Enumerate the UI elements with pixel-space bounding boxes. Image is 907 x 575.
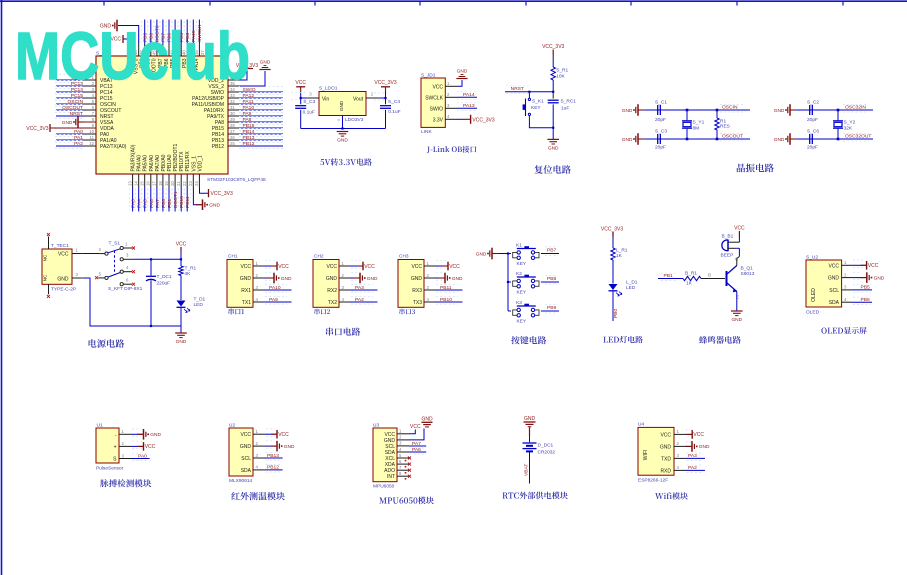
wire net PB10 [180, 188, 182, 212]
svg-text:LED: LED [194, 302, 204, 308]
svg-text:20pF: 20pF [655, 145, 666, 151]
wire to key [508, 310, 511, 312]
svg-text:GND: GND [548, 146, 559, 152]
svg-text:GND: GND [774, 108, 785, 114]
wire R1 to node [552, 80, 554, 92]
capacitor S_C3 20pF [657, 134, 659, 144]
svg-text:PA7: PA7 [412, 441, 421, 447]
svg-text:GND: GND [774, 137, 785, 143]
svg-text:MPU6050: MPU6050 [373, 484, 395, 490]
pin 48 VDD_3 (top) [132, 44, 134, 56]
resistor S_R1 10K [551, 67, 555, 80]
wire net PB6 [852, 301, 872, 303]
wire VCC to Vin [300, 93, 302, 99]
wire pin1 to VCC [265, 433, 277, 435]
caption serial 2 [314, 309, 330, 315]
pin 17 PA7/A0 (bottom) [156, 174, 158, 188]
svg-text:GND: GND [281, 276, 292, 282]
svg-text:GND: GND [326, 276, 338, 282]
svg-text:GND: GND [176, 339, 187, 345]
svg-text:GND: GND [524, 416, 536, 422]
wire net PA3 [686, 457, 705, 459]
svg-text:U3: U3 [373, 423, 379, 429]
pin 46 PB9 (top) [144, 44, 146, 56]
svg-text:D_DC1: D_DC1 [538, 443, 554, 449]
svg-text:0.1uF: 0.1uF [303, 110, 315, 116]
wire net PA0 [131, 458, 150, 460]
svg-text:PA2: PA2 [688, 465, 697, 471]
svg-text:CH2: CH2 [314, 254, 324, 260]
caption serial circuit [326, 327, 360, 335]
wire LED to rail [180, 307, 182, 326]
svg-text:LED: LED [626, 285, 636, 291]
pin 47 VSS_3 (top) [138, 44, 140, 56]
svg-text:VCC: VCC [660, 432, 671, 438]
wire net PB15 [240, 127, 283, 129]
caption buzzer circuit [699, 336, 741, 344]
svg-text:PulseSensor: PulseSensor [96, 466, 124, 472]
wire LDO GND to rail [342, 116, 344, 129]
svg-text:PB0: PB0 [613, 308, 619, 318]
svg-text:PA13: PA13 [463, 103, 475, 109]
svg-text:RXD: RXD [660, 468, 671, 474]
junction [552, 91, 554, 93]
svg-text:VCC_3V3: VCC_3V3 [26, 126, 48, 132]
svg-text:10K: 10K [556, 74, 565, 80]
svg-text:VCC: VCC [410, 424, 421, 430]
svg-text:KEY: KEY [517, 261, 527, 267]
svg-text:OSC32IN: OSC32IN [845, 105, 866, 111]
svg-text:VCC: VCC [240, 264, 251, 270]
svg-text:T_S1: T_S1 [109, 241, 121, 247]
wire net NRST [56, 115, 84, 117]
svg-text:VCC: VCC [145, 444, 156, 450]
svg-text:28: 28 [230, 123, 235, 128]
svg-text:GND: GND [240, 276, 252, 282]
svg-text:T_DC1: T_DC1 [157, 274, 173, 280]
svg-text:PB12: PB12 [267, 465, 279, 471]
svg-text:VCC: VCC [734, 226, 745, 232]
svg-text:TX2: TX2 [328, 300, 337, 306]
capacitor S_C3 0.1uF [300, 98, 302, 104]
connector CH1 serial [227, 260, 253, 308]
svg-text:S_K1: S_K1 [532, 99, 544, 105]
svg-text:S_C6: S_C6 [807, 129, 819, 135]
caption LED circuit [603, 336, 642, 343]
wire net PB11 [435, 289, 463, 291]
svg-text:GND: GND [622, 137, 633, 143]
wire GND to VSS_3 [118, 26, 139, 45]
wire pin2 to GND [409, 429, 424, 440]
svg-text:VCC: VCC [411, 264, 422, 270]
wire PB1 to R [658, 278, 683, 280]
junction [384, 97, 386, 99]
svg-text:+: + [114, 444, 117, 450]
wire pin1 to VCC [686, 433, 692, 435]
sheet zone tick [419, 1, 421, 6]
no connect pin 5 [408, 457, 411, 460]
wire VCC to R1 [552, 55, 554, 67]
caption reset circuit [534, 165, 570, 174]
junction [552, 127, 554, 129]
svg-text:15: 15 [140, 181, 145, 186]
svg-text:17: 17 [152, 181, 157, 186]
svg-text:ESP8266-12F: ESP8266-12F [638, 478, 668, 484]
wire key to net PB7 [541, 253, 559, 255]
wire net PB14 [240, 133, 283, 135]
ground [137, 433, 144, 435]
wire pin2 to GND [852, 277, 867, 279]
wire VCC down [180, 251, 182, 266]
svg-text:16: 16 [146, 181, 151, 186]
sheet border top [0, 0, 907, 2]
svg-text:SCL: SCL [829, 288, 839, 294]
svg-text:PA8: PA8 [243, 117, 252, 123]
svg-text:XDA: XDA [385, 462, 396, 468]
svg-text:PA6/A0: PA6/A0 [149, 155, 155, 172]
ground [731, 310, 743, 312]
wire net PB10 [435, 301, 463, 303]
wire net SWIO [240, 91, 283, 93]
junction [150, 325, 152, 327]
ground [439, 277, 446, 279]
battery D_DC1 CR2032 [523, 442, 537, 444]
sensor U1 PulseSensor [96, 428, 119, 463]
wire gnd to keys rail [497, 253, 508, 255]
svg-text:B_B1: B_B1 [722, 234, 734, 240]
svg-text:PB12: PB12 [243, 141, 255, 147]
svg-text:SCL: SCL [241, 456, 251, 462]
wire pin1 to VCC [435, 265, 448, 267]
svg-text:8M: 8M [693, 126, 700, 132]
pin 1 stub [123, 247, 132, 249]
wire net PA3 [132, 188, 134, 212]
svg-text:VCC_3V3: VCC_3V3 [601, 227, 623, 233]
pin 5 stub [98, 277, 105, 279]
svg-text:PA2/TX(A0): PA2/TX(A0) [100, 144, 127, 150]
svg-text:220uF: 220uF [157, 281, 171, 287]
wire OSC32OUT row [795, 138, 873, 140]
pin 4 stub [123, 271, 132, 273]
wire net PA14 [458, 96, 477, 98]
svg-text:25: 25 [230, 141, 235, 146]
wire VCC to R [612, 237, 614, 249]
svg-text:VCC_3V3: VCC_3V3 [211, 191, 233, 197]
svg-text:11: 11 [90, 135, 95, 140]
ground [271, 445, 278, 447]
pin 22 PB11/RX (bottom) [186, 174, 188, 188]
svg-text:KEY: KEY [517, 290, 527, 296]
svg-text:PA9: PA9 [243, 111, 252, 117]
svg-text:PB15: PB15 [243, 123, 255, 129]
connector T_TEC1 TYPE-C-2P [42, 249, 72, 284]
svg-text:VCC: VCC [326, 264, 337, 270]
wire net PB5 [174, 20, 176, 45]
svg-text:PB8: PB8 [547, 276, 557, 282]
wire net PB12 [265, 469, 283, 471]
svg-text:31: 31 [230, 105, 235, 110]
svg-text:K3: K3 [516, 300, 522, 306]
switch link dashed [114, 251, 116, 275]
svg-text:GND: GND [240, 444, 252, 450]
display S_U2 OLED [806, 260, 842, 307]
svg-text:S_LDO1: S_LDO1 [319, 86, 338, 92]
svg-text:MCUclub: MCUclub [15, 19, 250, 94]
switch S_K1 KEY [528, 92, 530, 98]
svg-text:BEEP: BEEP [721, 253, 734, 259]
wire key to gnd wire [528, 116, 530, 122]
wire net BOOT1 [174, 188, 176, 212]
svg-text:S_JD1: S_JD1 [421, 73, 436, 79]
svg-text:LDO3V3: LDO3V3 [345, 117, 364, 123]
svg-text:GND: GND [452, 276, 463, 282]
wire VCC to buzzer pin1 [738, 237, 740, 242]
wire OSC32IN row [795, 109, 873, 111]
svg-text:GND: GND [284, 444, 295, 450]
transistor B_Q1 S9013 [726, 271, 728, 286]
svg-text:XCL: XCL [385, 456, 395, 462]
svg-text:S_Y2: S_Y2 [844, 120, 856, 126]
wire net PA2 [56, 145, 84, 147]
wire net PA13 [458, 107, 477, 109]
svg-text:T_R1: T_R1 [185, 266, 197, 272]
pin 21 PB10/TX (bottom) [180, 174, 182, 188]
wire net PB13 [240, 139, 283, 141]
junction [300, 97, 302, 99]
svg-text:CH3: CH3 [399, 254, 409, 260]
wire net PA7 [409, 445, 426, 447]
svg-text:RES: RES [720, 124, 730, 130]
wire pin1 to VCC [264, 265, 277, 267]
power VCC [138, 445, 144, 447]
wire net BOOT0 [156, 20, 158, 45]
wire net PB7 [162, 20, 164, 45]
LED L_D1 [609, 284, 618, 290]
pin 3 GND [72, 277, 83, 279]
pin 13 PA3/RX(A0) (bottom) [132, 174, 134, 188]
wire OSCIN row [643, 109, 750, 111]
pin 20 PB2/BOOT1 (bottom) [174, 174, 176, 188]
junction [507, 252, 509, 254]
svg-text:PA0: PA0 [74, 129, 83, 135]
svg-text:VCC_3V3: VCC_3V3 [542, 44, 564, 50]
sheet zone tick [209, 1, 211, 6]
svg-text:29: 29 [230, 117, 235, 122]
wire pin2 to GND [265, 445, 276, 447]
wire VCC to VDD_3 [123, 39, 133, 44]
wire pin4 to VCC_3V3 [458, 118, 465, 120]
wire net PA4 [138, 188, 140, 212]
capacitor T_DC1 220uF [150, 259, 152, 275]
resistor L_R1 1K [611, 248, 615, 260]
wire key to net PB8 [541, 281, 559, 283]
sheet zone tick [103, 1, 105, 6]
svg-text:U4: U4 [638, 422, 644, 428]
svg-text:TYPE-C-2P: TYPE-C-2P [51, 287, 76, 293]
wire net PA5 [144, 188, 146, 212]
svg-text:30: 30 [230, 111, 235, 116]
svg-text:KEY: KEY [517, 319, 527, 325]
svg-text:SWIO: SWIO [430, 106, 443, 112]
resistor T_R1 4K [179, 266, 183, 276]
wire net PB0 [162, 188, 164, 212]
wire net PB11 [186, 188, 188, 212]
caption serial 1 [229, 308, 245, 314]
wire pin1 to VCC [852, 264, 867, 266]
svg-text:WIFI: WIFI [643, 450, 649, 461]
capacitor S_C4 0.1uF [385, 98, 387, 104]
svg-text:10: 10 [89, 129, 94, 134]
wire net PA2 [686, 469, 705, 471]
wire net PA9 [240, 115, 283, 117]
wire VDD_1 to VCC_3V3 [200, 188, 209, 194]
svg-text:VCC: VCC [295, 80, 306, 86]
power VCC [442, 265, 448, 267]
wire net PB5 [852, 289, 872, 291]
svg-text:OLED: OLED [806, 310, 820, 316]
svg-text:OSCIN: OSCIN [722, 105, 738, 111]
svg-text:GND: GND [411, 276, 423, 282]
pin 14 PA4/A0 (bottom) [138, 174, 140, 188]
svg-text:PB12: PB12 [212, 144, 224, 150]
svg-text:PB11: PB11 [440, 285, 452, 291]
svg-text:OLED: OLED [811, 288, 817, 302]
wire net PA6 [409, 451, 426, 453]
ground [196, 204, 203, 206]
svg-text:S_KFT DIP-8X1: S_KFT DIP-8X1 [108, 286, 143, 292]
switch arm 5-4 [108, 273, 120, 278]
svg-text:23: 23 [188, 181, 193, 186]
svg-text:RX3: RX3 [412, 288, 422, 294]
svg-text:NC: NC [42, 254, 47, 261]
wire Vout corner [380, 97, 386, 99]
svg-text:MLX90614: MLX90614 [229, 478, 253, 484]
svg-text:CH1: CH1 [228, 254, 238, 260]
power VCC_3V3 to VDDA [50, 127, 96, 129]
svg-text:S_R1: S_R1 [556, 68, 568, 74]
svg-text:K2: K2 [516, 271, 522, 277]
svg-text:L_R1: L_R1 [616, 248, 628, 254]
crystal S_Y1 8M [686, 110, 688, 120]
svg-text:1K: 1K [616, 253, 623, 259]
svg-text:GND: GND [339, 100, 344, 111]
pin 23 VSS_1 (bottom) [192, 174, 194, 188]
wire pin1 to VCC [409, 430, 415, 434]
svg-text:PA11: PA11 [243, 99, 255, 105]
wire net PB3 [186, 20, 188, 45]
pin 16 PA6/A0 (bottom) [150, 174, 152, 188]
wire OSCOUT row [643, 138, 750, 140]
wire R to base [701, 278, 725, 280]
sheet zone tick [630, 1, 632, 6]
pin 3 wire to node [123, 258, 133, 260]
svg-text:SDA: SDA [829, 300, 840, 306]
wire net PA12 [240, 97, 283, 99]
wire net PB6 [168, 20, 170, 45]
svg-text:GND: GND [57, 277, 69, 283]
svg-text:S_C1: S_C1 [655, 100, 667, 106]
caption power circuit [89, 339, 125, 348]
svg-text:GND: GND [367, 276, 378, 282]
svg-text:STM32F103C8T6_LQFP48: STM32F103C8T6_LQFP48 [207, 177, 266, 183]
svg-text:32: 32 [230, 99, 235, 104]
svg-text:VCC_3V3: VCC_3V3 [472, 117, 494, 123]
ground [547, 138, 559, 140]
power VCC [357, 265, 363, 267]
pin 41 PB5 (top) [174, 44, 176, 56]
wire net OSCOUT [56, 109, 84, 111]
caption J-Link OB [427, 146, 477, 153]
wire net PA0 [56, 133, 84, 135]
switch arm 2-1 [108, 249, 120, 253]
wire net PA11 [240, 103, 283, 105]
sheet border left [1, 0, 3, 575]
wire net PA2 [350, 301, 378, 303]
svg-text:SCL: SCL [385, 444, 395, 450]
svg-text:21: 21 [176, 181, 181, 186]
svg-text:PA1: PA1 [74, 135, 83, 141]
svg-text:GND: GND [699, 444, 710, 450]
svg-text:19: 19 [164, 181, 169, 186]
caption 5V to 3.3V [320, 158, 371, 165]
svg-text:VCC: VCC [432, 84, 443, 90]
svg-text:S_RC1: S_RC1 [561, 99, 577, 105]
caption OLED display [821, 327, 866, 334]
caption serial 3 [399, 309, 414, 315]
wire net OSCIN [56, 103, 84, 105]
svg-text:VCC: VCC [384, 432, 395, 438]
svg-text:PA14: PA14 [463, 92, 475, 98]
power VCC [271, 265, 277, 267]
wire TEC VCC to switch pin2 [83, 253, 100, 255]
svg-text:INT: INT [387, 474, 395, 480]
pin 3 Vin [307, 97, 319, 99]
svg-text:GND: GND [874, 275, 885, 281]
svg-text:VSS_1: VSS_1 [191, 156, 197, 172]
svg-text:PB13: PB13 [267, 453, 279, 459]
svg-text:PA3/RX(A0): PA3/RX(A0) [131, 144, 137, 171]
svg-text:NRST: NRST [511, 86, 524, 92]
pin 37 PA14 (top) [198, 44, 200, 56]
svg-text:PB1/A0: PB1/A0 [167, 154, 173, 171]
svg-text:VCC: VCC [828, 263, 839, 269]
ground [337, 131, 349, 133]
svg-text:T_D1: T_D1 [194, 297, 206, 303]
svg-text:VCC: VCC [693, 432, 704, 438]
svg-text:VDD_1: VDD_1 [197, 155, 203, 171]
wire net PB12 [240, 145, 283, 147]
wire pin2 to GND [435, 277, 444, 279]
wire keys vertical rail [507, 254, 509, 312]
wire pin1 to VCC [350, 265, 363, 267]
svg-text:PA3: PA3 [355, 285, 364, 291]
svg-text:TX1: TX1 [242, 300, 251, 306]
wire net PA10 [264, 289, 292, 291]
no connect pin 6 [408, 463, 411, 466]
svg-text:S_U2: S_U2 [806, 255, 818, 261]
svg-text:GND: GND [457, 69, 468, 75]
caption IR temperature module [231, 492, 284, 500]
svg-text:KEY: KEY [531, 105, 541, 111]
pin 40 PB4 (top) [180, 44, 182, 56]
svg-text:L_D1: L_D1 [626, 280, 638, 286]
wire ground rail [301, 128, 386, 130]
wire to key [508, 281, 511, 283]
svg-text:4K: 4K [185, 271, 192, 277]
wire rail to gnd [180, 326, 182, 333]
svg-text:20: 20 [170, 181, 175, 186]
svg-text:OSCOUT: OSCOUT [62, 105, 83, 111]
